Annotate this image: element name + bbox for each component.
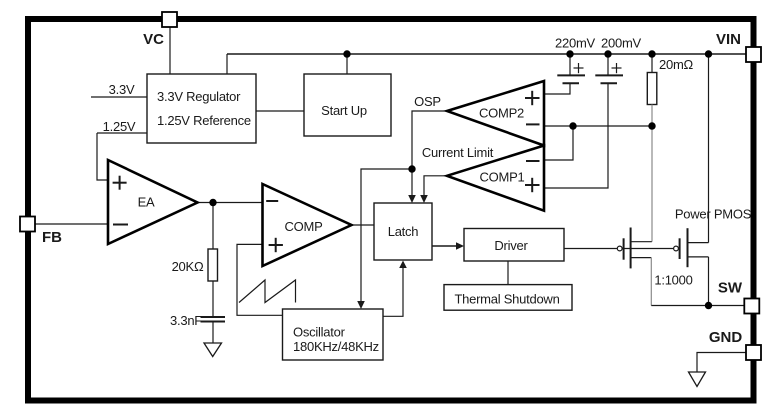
svg-text:VC: VC — [143, 31, 164, 48]
svg-text:Latch: Latch — [388, 224, 419, 239]
svg-text:Current Limit: Current Limit — [422, 145, 494, 160]
svg-text:3.3V: 3.3V — [109, 82, 135, 97]
svg-text:VIN: VIN — [716, 31, 741, 48]
svg-text:1:1000: 1:1000 — [654, 273, 692, 288]
svg-text:FB: FB — [42, 229, 62, 246]
svg-text:220mV: 220mV — [555, 36, 596, 51]
svg-text:Start Up: Start Up — [321, 103, 367, 118]
svg-text:3.3nF: 3.3nF — [170, 313, 202, 328]
svg-text:EA: EA — [138, 195, 155, 210]
svg-text:COMP1: COMP1 — [480, 170, 525, 185]
svg-text:20mΩ: 20mΩ — [659, 57, 694, 72]
svg-text:1.25V: 1.25V — [103, 119, 136, 134]
svg-text:Thermal Shutdown: Thermal Shutdown — [454, 292, 559, 307]
svg-text:Power PMOS: Power PMOS — [675, 207, 752, 222]
svg-text:COMP: COMP — [285, 219, 323, 234]
svg-text:Driver: Driver — [494, 238, 528, 253]
svg-text:200mV: 200mV — [601, 36, 642, 51]
svg-text:180KHz/48KHz: 180KHz/48KHz — [293, 339, 379, 354]
svg-text:SW: SW — [718, 280, 743, 297]
svg-text:1.25V Reference: 1.25V Reference — [157, 113, 251, 128]
svg-text:3.3V Regulator: 3.3V Regulator — [157, 89, 241, 104]
svg-text:GND: GND — [709, 329, 743, 346]
svg-text:COMP2: COMP2 — [479, 106, 524, 121]
svg-text:Oscillator: Oscillator — [293, 325, 346, 340]
svg-text:OSP: OSP — [414, 94, 441, 109]
svg-text:20KΩ: 20KΩ — [172, 259, 204, 274]
